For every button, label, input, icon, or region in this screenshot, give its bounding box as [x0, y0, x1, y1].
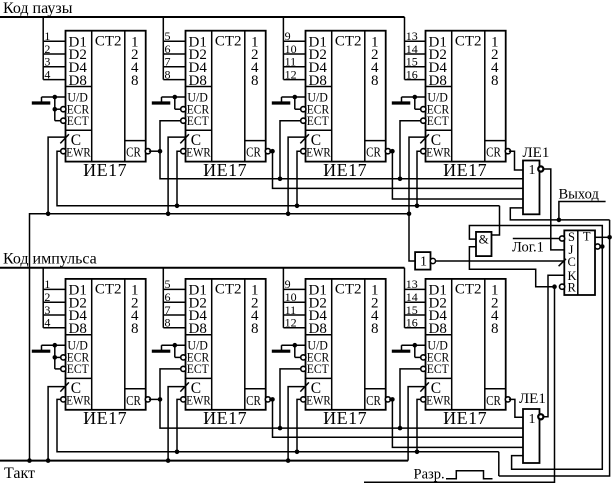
- counter DD2 ECR/ECT/EWR input bubbles: [181, 107, 186, 154]
- counter DD6 labels: [186, 282, 261, 409]
- svg-text:Код паузы: Код паузы: [3, 0, 73, 17]
- counter DD1 labels: [66, 33, 141, 160]
- counter DD1 data input pins 1-4: [43, 29, 65, 81]
- wire C input DD8: [408, 387, 425, 461]
- svg-text:EWR: EWR: [306, 146, 331, 160]
- counter DD8 CR output bubble: [505, 397, 510, 402]
- node Такт label: [4, 465, 35, 482]
- svg-text:D8: D8: [429, 73, 447, 89]
- counter DD6 C dynamic input marker: [180, 382, 189, 391]
- svg-text:D8: D8: [69, 321, 87, 337]
- svg-text:8: 8: [491, 321, 499, 337]
- counter DD8 U/D to ECR tie wire: [413, 343, 421, 357]
- wire C input DD5: [46, 387, 66, 463]
- svg-text:8: 8: [371, 73, 379, 89]
- counter DD5 C dynamic input marker: [60, 382, 69, 391]
- wire C input DD1: [46, 137, 66, 216]
- counter DD8 U/D constant level symbol: [392, 345, 426, 351]
- svg-text:T: T: [583, 230, 591, 244]
- or-gate DD10 ЛЕ1 label: [519, 391, 546, 407]
- svg-text:ECT: ECT: [67, 362, 89, 376]
- counter DD6 ECR/ECT/EWR input bubbles: [181, 355, 186, 402]
- counter DD3 data input pins 9-12: [283, 29, 305, 81]
- jk-trigger DD13 S input bubble: [560, 236, 565, 241]
- svg-text:Лог.1: Лог.1: [512, 240, 544, 256]
- or-gate DD10 body: [523, 409, 540, 463]
- counter DD3 ECR/ECT/EWR input bubbles: [301, 107, 306, 154]
- svg-text:12: 12: [285, 316, 297, 330]
- counter DD7 labels: [306, 282, 381, 409]
- counter DD1 CR output bubble: [145, 149, 150, 154]
- counter DD1 ECR/ECT/EWR input bubbles: [61, 107, 66, 154]
- svg-text:CR: CR: [486, 146, 501, 161]
- wire Такт bottom bus: [0, 458, 408, 463]
- counter DD8 name label ИЕ17: [443, 408, 487, 428]
- wire Такт riser to top row: [30, 212, 412, 461]
- or-gate DD10 output bubble: [538, 414, 543, 419]
- counter DD8 data input pins 13-16: [405, 277, 426, 329]
- counter DD2 labels: [186, 33, 261, 160]
- svg-text:ИЕ17: ИЕ17: [323, 160, 367, 180]
- counter DD5 CR output bubble: [145, 397, 150, 402]
- jk-trigger DD13 Q-bar output bubble and wire: [595, 244, 605, 249]
- inverter DD12 output bubble: [430, 258, 435, 263]
- svg-text:8: 8: [165, 67, 171, 81]
- svg-text:CT2: CT2: [95, 33, 122, 49]
- svg-text:D8: D8: [69, 73, 87, 89]
- svg-text:ECT: ECT: [427, 114, 449, 128]
- counter DD3 ИЕ17 body: [306, 31, 386, 162]
- wire DD9 output to J of trigger: [544, 169, 564, 250]
- wire CR DD1 to ECT DD2 and L1 bus: [149, 121, 523, 181]
- counter DD3 U/D to ECR tie wire: [293, 95, 301, 110]
- counter DD4 ECR/ECT/EWR input bubbles: [421, 107, 426, 154]
- wire Выход tap: [557, 202, 606, 223]
- wire DD10 output to K of trigger: [544, 275, 564, 417]
- counter DD2 U/D to ECR tie wire: [173, 95, 181, 110]
- wire Q net: feedback to DD9 and bottom EWR bus: [499, 208, 610, 476]
- svg-text:Такт: Такт: [4, 465, 35, 482]
- counter DD2 data input pins 5-8: [163, 29, 185, 81]
- svg-text:12: 12: [285, 67, 297, 81]
- wire C input DD3: [286, 137, 306, 216]
- counter DD2 ИЕ17 body: [186, 31, 266, 162]
- or-gate DD9 output bubble: [538, 166, 543, 171]
- svg-text:CT2: CT2: [215, 33, 242, 49]
- counter DD4 U/D to ECR tie wire: [413, 95, 421, 110]
- counter DD3 name label ИЕ17: [323, 160, 367, 180]
- counter DD4 name label ИЕ17: [443, 160, 487, 180]
- wire CR DD4 to gate DD9: [509, 151, 523, 170]
- svg-text:ИЕ17: ИЕ17: [203, 160, 247, 180]
- and-gate DD11 body: [476, 232, 492, 257]
- svg-text:CR: CR: [246, 394, 261, 409]
- svg-text:ИЕ17: ИЕ17: [83, 160, 127, 180]
- counter DD8 C dynamic input marker: [420, 382, 429, 391]
- wire DD12 output to C of trigger: [436, 260, 565, 262]
- wire Q-bar net: to DD11 input and DD10 feedback: [512, 247, 603, 470]
- counter DD6 CR output bubble: [265, 397, 270, 402]
- wire CR DD6 to gate DD10: [269, 397, 523, 437]
- svg-text:ECT: ECT: [67, 114, 89, 128]
- counter DD5 U/D constant level symbol: [32, 345, 66, 351]
- svg-text:16: 16: [406, 67, 418, 81]
- svg-text:Выход: Выход: [559, 186, 600, 202]
- counter DD7 U/D to ECR tie wire: [293, 343, 301, 357]
- counter DD2 C dynamic input marker: [180, 134, 189, 143]
- wire Код паузы bus: [0, 17, 405, 80]
- wire CR DD7 to gate DD10: [389, 397, 523, 447]
- svg-text:R: R: [568, 280, 577, 294]
- svg-text:ECT: ECT: [307, 362, 329, 376]
- svg-text:D8: D8: [309, 73, 327, 89]
- svg-text:D8: D8: [429, 321, 447, 337]
- svg-text:CT2: CT2: [455, 33, 482, 49]
- svg-text:Код импульса: Код импульса: [3, 251, 97, 268]
- counter DD3 labels: [306, 33, 381, 160]
- counter DD3 CR output bubble: [385, 149, 390, 154]
- svg-text:4: 4: [44, 67, 50, 81]
- counter DD7 C dynamic input marker: [300, 382, 309, 391]
- counter DD6 U/D to ECR tie wire: [173, 343, 181, 357]
- svg-text:ИЕ17: ИЕ17: [443, 160, 487, 180]
- wire DD11 output to EWR bus top: [492, 206, 500, 235]
- counter DD1 U/D constant level symbol: [32, 97, 66, 103]
- inverter DD12 body: [415, 252, 430, 270]
- counter DD8 ECR/ECT/EWR input bubbles: [421, 355, 426, 402]
- svg-text:8: 8: [371, 321, 379, 337]
- svg-text:D8: D8: [189, 73, 207, 89]
- svg-text:8: 8: [165, 316, 171, 330]
- wire EWR bus top row: [57, 151, 500, 208]
- wire Разр net to R of trigger: [364, 284, 557, 482]
- node Код импульса label: [3, 251, 97, 268]
- svg-text:D8: D8: [189, 321, 207, 337]
- counter DD7 name label ИЕ17: [323, 408, 367, 428]
- svg-text:ECT: ECT: [307, 114, 329, 128]
- svg-text:CR: CR: [366, 394, 381, 409]
- counter DD7 ECR/ECT/EWR input bubbles: [301, 355, 306, 402]
- svg-text:CT2: CT2: [455, 282, 482, 298]
- counter DD4 U/D constant level symbol: [392, 97, 426, 103]
- or-gate DD9 body: [523, 161, 540, 215]
- counter DD2 CR output bubble: [265, 149, 270, 154]
- jk-trigger DD13 body: [564, 230, 595, 295]
- counter DD4 labels: [426, 33, 501, 160]
- wire C input DD6: [166, 387, 186, 463]
- counter DD5 labels: [66, 282, 141, 409]
- svg-text:CR: CR: [486, 394, 501, 409]
- svg-text:ЛЕ1: ЛЕ1: [523, 145, 550, 161]
- svg-text:ИЕ17: ИЕ17: [83, 408, 127, 428]
- counter DD7 ИЕ17 body: [306, 279, 386, 410]
- node Код паузы label: [3, 0, 73, 17]
- svg-text:Разр.: Разр.: [414, 467, 445, 483]
- counter DD6 data input pins 5-8: [163, 277, 185, 329]
- svg-text:8: 8: [491, 73, 499, 89]
- svg-text:8: 8: [131, 321, 139, 337]
- counter DD4 ИЕ17 body: [426, 31, 506, 162]
- counter DD5 name label ИЕ17: [83, 408, 127, 428]
- jk-trigger DD13 Q output wire: [595, 235, 612, 240]
- node Лог.1 constant to S input: [512, 239, 559, 256]
- jk-trigger DD13 C dynamic marker: [559, 259, 566, 266]
- svg-text:4: 4: [44, 316, 50, 330]
- svg-text:CT2: CT2: [95, 282, 122, 298]
- svg-text:CR: CR: [126, 146, 141, 161]
- counter DD2 U/D constant level symbol: [152, 97, 186, 103]
- counter DD3 U/D constant level symbol: [272, 97, 306, 103]
- counter DD1 ИЕ17 body: [66, 31, 146, 162]
- svg-text:D8: D8: [309, 321, 327, 337]
- counter DD3 C dynamic input marker: [300, 134, 309, 143]
- svg-text:ИЕ17: ИЕ17: [323, 408, 367, 428]
- counter DD5 U/D to ECR tie wire: [53, 343, 61, 369]
- counter DD8 ИЕ17 body: [426, 279, 506, 410]
- wire DD11 input A from Q-bar line: [469, 226, 602, 247]
- svg-text:ИЕ17: ИЕ17: [443, 408, 487, 428]
- jk-trigger DD13 R input bubble: [560, 284, 565, 289]
- svg-text:&: &: [479, 232, 489, 247]
- wire EWR bus bottom row: [57, 399, 499, 454]
- counter DD1 U/D to ECR tie wire: [53, 95, 61, 121]
- svg-text:8: 8: [251, 73, 259, 89]
- counter DD6 ИЕ17 body: [186, 279, 266, 410]
- counter DD4 CR output bubble: [505, 149, 510, 154]
- wire DD11 input B from Разр net: [469, 247, 554, 287]
- svg-text:16: 16: [406, 316, 418, 330]
- counter DD5 data input pins 1-4: [43, 277, 65, 329]
- svg-text:EWR: EWR: [426, 146, 451, 160]
- counter DD8 labels: [426, 282, 501, 409]
- counter DD1 C dynamic input marker: [60, 134, 69, 143]
- svg-text:CR: CR: [366, 146, 381, 161]
- wire CR DD3 to gate DD9: [389, 149, 523, 199]
- svg-text:EWR: EWR: [306, 394, 331, 408]
- wire C input DD2: [166, 137, 186, 216]
- svg-text:EWR: EWR: [186, 146, 211, 160]
- svg-text:EWR: EWR: [186, 394, 211, 408]
- svg-text:ЛЕ1: ЛЕ1: [519, 391, 546, 407]
- counter DD4 C dynamic input marker: [420, 134, 429, 143]
- wire C input DD4 / clock feed to inverter: [409, 137, 426, 261]
- svg-text:1: 1: [420, 255, 427, 270]
- or-gate DD9 ЛЕ1 label: [523, 145, 550, 161]
- svg-text:8: 8: [251, 321, 259, 337]
- node Разр label: [414, 467, 445, 483]
- svg-text:CR: CR: [126, 394, 141, 409]
- counter DD1 name label ИЕ17: [83, 160, 127, 180]
- counter DD2 name label ИЕ17: [203, 160, 247, 180]
- wire Код импульса bus: [0, 268, 405, 328]
- svg-text:1: 1: [529, 412, 536, 427]
- wire CR DD5 to ECT DD6 and L1b bus: [149, 369, 523, 431]
- counter DD4 data input pins 13-16: [405, 29, 426, 81]
- svg-text:1: 1: [529, 163, 536, 178]
- svg-text:EWR: EWR: [426, 394, 451, 408]
- svg-text:CT2: CT2: [215, 282, 242, 298]
- wire CR DD8 to gate DD10: [509, 399, 523, 417]
- svg-text:CT2: CT2: [335, 282, 362, 298]
- svg-text:ECT: ECT: [187, 114, 209, 128]
- counter DD7 data input pins 9-12: [283, 277, 305, 329]
- svg-text:CT2: CT2: [335, 33, 362, 49]
- svg-text:EWR: EWR: [66, 394, 91, 408]
- svg-text:CR: CR: [246, 146, 261, 161]
- pulse waveform symbol: [446, 471, 493, 479]
- counter DD7 U/D constant level symbol: [272, 345, 306, 351]
- svg-text:ECT: ECT: [427, 362, 449, 376]
- svg-text:C: C: [568, 255, 576, 269]
- counter DD5 ECR/ECT/EWR input bubbles: [61, 355, 66, 402]
- counter DD6 name label ИЕ17: [203, 408, 247, 428]
- counter DD7 CR output bubble: [385, 397, 390, 402]
- svg-text:ИЕ17: ИЕ17: [203, 408, 247, 428]
- svg-text:EWR: EWR: [66, 146, 91, 160]
- node Выход label: [559, 186, 600, 202]
- svg-text:S: S: [568, 230, 575, 244]
- svg-text:ECT: ECT: [187, 362, 209, 376]
- counter DD6 U/D constant level symbol: [152, 345, 186, 351]
- counter DD5 ИЕ17 body: [66, 279, 146, 410]
- svg-text:8: 8: [131, 73, 139, 89]
- wire CR DD2 to gate DD9: [269, 149, 523, 189]
- wire C input DD7: [286, 387, 306, 463]
